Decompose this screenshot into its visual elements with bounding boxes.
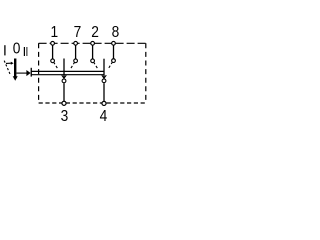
terminal 2	[91, 41, 95, 45]
pole B arm arrowhead	[102, 75, 107, 78]
fixed contact 7	[74, 59, 78, 63]
terminal 7	[74, 41, 78, 45]
svg-text:4: 4	[100, 107, 108, 125]
terminal 8	[112, 41, 116, 45]
pole A arm alternate position toward contact 1 (dashed)	[54, 63, 59, 72]
pole B pivot	[102, 79, 106, 83]
label terminal 4	[100, 107, 108, 125]
svg-text:3: 3	[61, 107, 69, 125]
wire terminal 8 to contact 8	[113, 46, 115, 59]
switch enclosure (dashed box)	[39, 43, 146, 103]
wire pivot B to terminal 4	[103, 83, 105, 101]
wire terminal 2 to contact 2	[92, 46, 94, 59]
svg-text:2: 2	[91, 23, 99, 41]
label terminal 3	[61, 107, 69, 125]
actuator lever	[13, 59, 18, 81]
wire pivot A to terminal 3	[63, 83, 65, 101]
label terminal 2	[91, 23, 99, 41]
pole A arm arrowhead	[62, 75, 67, 78]
actuation direction arrow	[6, 62, 14, 65]
position mark I	[4, 45, 6, 55]
mechanical link arrowhead	[26, 70, 30, 76]
pole B arm alternate position toward contact 8 (dashed)	[107, 62, 112, 71]
position label 0	[13, 39, 21, 57]
pole A arm alternate position toward contact 7 (dashed)	[69, 63, 74, 72]
coupling bar (upper line)	[31, 70, 104, 72]
fixed contact 2	[91, 59, 95, 63]
pole B arm alternate position toward contact 2 (dashed)	[94, 63, 99, 72]
lever alternate position (dashed)	[4, 61, 10, 76]
svg-text:1: 1	[50, 23, 58, 41]
pole B movable arm	[103, 59, 105, 78]
svg-text:7: 7	[74, 23, 82, 41]
fixed contact 1	[51, 59, 55, 63]
pole A pivot	[62, 79, 66, 83]
terminal 1	[51, 41, 55, 45]
wire terminal 7 to contact 7	[75, 46, 77, 59]
position mark II	[24, 47, 27, 56]
pole A movable arm	[63, 59, 65, 79]
svg-text:0: 0	[13, 39, 21, 57]
fixed contact 8	[112, 59, 116, 63]
label terminal 7	[74, 23, 82, 41]
coupling bar end cap	[31, 68, 32, 77]
wire terminal 1 to contact 1	[52, 46, 54, 59]
terminal 3	[62, 101, 66, 105]
label terminal 1	[50, 23, 58, 41]
mechanical link wire from lever to bar	[16, 72, 27, 74]
svg-text:8: 8	[112, 23, 120, 41]
coupling bar (lower line)	[31, 74, 104, 76]
terminal 4	[102, 101, 106, 105]
label terminal 8	[112, 23, 120, 41]
